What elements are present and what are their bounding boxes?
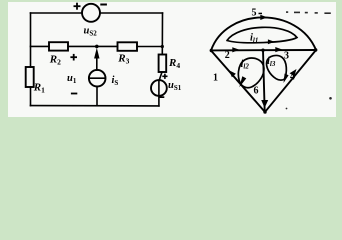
dash after 5 <box>259 13 263 15</box>
wire: US1 to bottom <box>158 96 160 106</box>
svg-text:uS2: uS2 <box>84 25 98 37</box>
wire: left vertical top <box>30 13 32 67</box>
svg-text:6: 6 <box>254 86 259 97</box>
branch 4 arrowhead <box>290 69 297 76</box>
branch 5 arrowhead <box>260 15 267 20</box>
resistor R2 <box>49 42 68 50</box>
svg-text:il3: il3 <box>267 56 276 68</box>
junction node at right mid <box>161 45 164 48</box>
wire: top right segment <box>100 12 163 14</box>
node L <box>210 49 213 52</box>
wire: middle center <box>68 45 118 47</box>
resistor R1 <box>26 67 34 87</box>
iS internal bar <box>89 77 105 79</box>
loop il1 lens curve <box>227 27 297 42</box>
wire: left vertical bottom <box>30 87 32 106</box>
voltage source US2 <box>82 4 100 22</box>
svg-text:5: 5 <box>252 7 257 18</box>
loop il1 arrowhead <box>268 39 275 44</box>
svg-text:4: 4 <box>290 72 295 83</box>
svg-text:il1: il1 <box>250 33 258 45</box>
svg-text:1: 1 <box>213 72 218 83</box>
loop il3 arrowhead <box>284 74 289 84</box>
svg-text:2: 2 <box>225 50 230 61</box>
resistor R3 <box>118 42 138 51</box>
branch 1 <box>211 51 266 113</box>
plus sign of US2 <box>74 5 81 7</box>
plus sign of US1 <box>162 76 167 78</box>
plus sign of u1 <box>70 56 77 58</box>
minus sign of u1 <box>71 93 77 95</box>
branch 1 arrowhead <box>229 70 236 77</box>
loop il2 arrowhead <box>239 76 246 87</box>
wire: middle right <box>137 46 162 48</box>
wire: bottom <box>31 105 159 107</box>
branch 6 <box>263 50 265 112</box>
minus sign of US1 <box>159 96 164 98</box>
svg-text:R3: R3 <box>117 53 129 66</box>
svg-text:R4: R4 <box>168 57 180 70</box>
wire: top left segment <box>31 12 83 14</box>
US1 internal bar <box>158 80 160 95</box>
branch 2 arrowhead <box>232 47 239 52</box>
branch 2 and 3 chord <box>211 49 316 51</box>
svg-text:R1: R1 <box>33 82 45 95</box>
stray dot 2 <box>286 108 288 110</box>
dashed line fragments top right <box>286 11 288 13</box>
branch 5 outer arc <box>211 17 316 50</box>
loop il3 teardrop curve <box>267 55 287 80</box>
iS arrowhead <box>94 48 99 59</box>
current source iS <box>89 70 106 87</box>
stray dot 1 <box>329 97 332 100</box>
wire: R4 to US1 <box>159 72 162 80</box>
wire: right vertical top <box>161 13 163 55</box>
resistor R4 <box>159 55 167 73</box>
branch 4 <box>264 50 316 113</box>
svg-text:R2: R2 <box>49 53 61 66</box>
wire: middle left <box>31 45 50 47</box>
svg-text:uS1: uS1 <box>168 80 182 92</box>
junction node at iS tap <box>95 45 99 49</box>
branch 6 arrowhead <box>261 100 268 108</box>
wire: iS arrow shaft <box>96 54 98 70</box>
minus sign of US2 <box>100 4 107 6</box>
node C <box>261 49 264 52</box>
node B <box>263 110 266 113</box>
svg-text:iS: iS <box>112 75 119 87</box>
voltage source US1 <box>151 80 167 96</box>
wire: iS to bottom <box>96 87 98 106</box>
svg-text:u1: u1 <box>67 73 77 85</box>
node R <box>314 48 317 51</box>
branch 3 arrowhead <box>275 47 282 52</box>
loop il2 teardrop curve <box>238 58 264 88</box>
svg-text:3: 3 <box>284 51 289 62</box>
